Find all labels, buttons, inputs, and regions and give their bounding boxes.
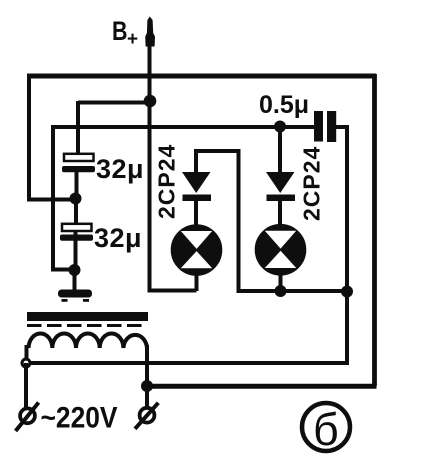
svg-text:0.5μ: 0.5μ — [259, 91, 309, 119]
wire: right down rail x=347 — [345, 125, 349, 363]
wire: midpoint junction to C2 top — [74, 199, 78, 225]
wire: lamp HL2 bottom stub — [279, 275, 283, 292]
arrow: B+ terminal — [145, 17, 155, 47]
wire: junction to diode VD2 — [278, 128, 282, 173]
wire: outer loop top edge — [27, 74, 376, 79]
node: bottom-right junction — [341, 286, 353, 298]
wire: B+ junction to capacitor C1 (horizontal) — [78, 101, 150, 105]
wire: C2 bottom to ground junction — [74, 231, 78, 270]
node: 0.5μ junction — [274, 121, 286, 133]
wire: rail drop to ground junction (horizontal) — [51, 268, 72, 272]
svg-text:+: + — [127, 29, 138, 50]
wire: C3 right plate lead — [336, 125, 349, 129]
transformer T1 core bar — [27, 312, 148, 321]
wire: bottom return rail to transformer left terminal — [26, 361, 349, 365]
terminal ring: winding left terminal — [21, 358, 32, 369]
figure marker circled б — [302, 403, 350, 451]
lamp HL2 — [257, 226, 304, 273]
wire: lamp HL1 bottom stub — [195, 275, 199, 291]
capacitor C3 left plate (0.5μ) — [314, 111, 323, 142]
wire: left edge to capacitor midpoint junction — [27, 198, 72, 202]
node: lamp HL2 bottom junction — [275, 285, 287, 297]
transformer T1 winding — [29, 334, 147, 349]
wire: rail drop vertical x=53 — [51, 125, 55, 270]
wire: outer loop left edge — [27, 74, 31, 201]
svg-text:2CP24: 2CP24 — [154, 144, 180, 219]
diode VD2 triangle — [266, 172, 295, 193]
wire: rail y=127 (to diode VD2 and C3) — [53, 125, 314, 129]
node: ground junction — [69, 264, 81, 276]
wire: B+ rail vertical — [148, 20, 152, 291]
wire: VD1 anode lead up — [194, 151, 198, 173]
plug terminal Ø left — [20, 408, 35, 423]
wire: C1 bottom to midpoint junction — [75, 171, 79, 199]
svg-text:б: б — [313, 404, 339, 455]
wire: outer loop bottom edge — [146, 384, 377, 389]
wire: ground stub — [73, 270, 77, 290]
svg-text:2CP24: 2CP24 — [299, 146, 325, 221]
diode VD2 cathode bar — [267, 195, 296, 202]
wire: winding right end down to plug — [145, 345, 149, 407]
plug terminal Ø right — [140, 408, 155, 423]
lamp HL1 — [173, 226, 220, 273]
capacitor C3 right plate — [327, 111, 336, 142]
wire: VD1 loop right vertical — [237, 149, 241, 290]
wire: VD1 loop bottom to HL2 junction — [237, 289, 281, 293]
capacitor C2 bottom plate — [60, 235, 93, 241]
wire: winding left end stub — [25, 345, 29, 359]
capacitor C1 bottom plate — [62, 166, 95, 172]
svg-text:B: B — [112, 16, 128, 46]
node: capacitor midpoint junction — [70, 193, 82, 205]
wire: outer loop right edge — [372, 74, 377, 386]
transformer T1 core dashed line — [27, 324, 147, 327]
svg-text:~220V: ~220V — [41, 402, 118, 435]
svg-text:32μ: 32μ — [94, 223, 142, 253]
svg-text:32μ: 32μ — [96, 154, 144, 184]
node: B+ junction — [144, 95, 157, 108]
node: bottom edge junction at transformer right — [141, 380, 153, 392]
wire: B+ rail to lamp HL1 bottom — [148, 289, 197, 293]
ground symbol marks — [62, 299, 68, 302]
capacitor C1 top plate (32μ) — [64, 154, 94, 161]
wire: left terminal down to plug — [24, 363, 28, 407]
wire: VD1 loop top horizontal — [194, 149, 239, 153]
diode VD1 triangle — [182, 172, 211, 193]
ground symbol bar — [58, 290, 92, 298]
wire: capacitor C1 top lead — [76, 101, 80, 156]
wire: VD2 to lamp HL2 — [278, 201, 282, 226]
wire: bottom rail HL2 to right — [280, 289, 347, 293]
capacitor C2 top plate (32μ) — [62, 224, 92, 231]
wire: VD1 to lamp HL1 — [194, 201, 198, 226]
diode VD1 cathode bar — [183, 195, 212, 202]
